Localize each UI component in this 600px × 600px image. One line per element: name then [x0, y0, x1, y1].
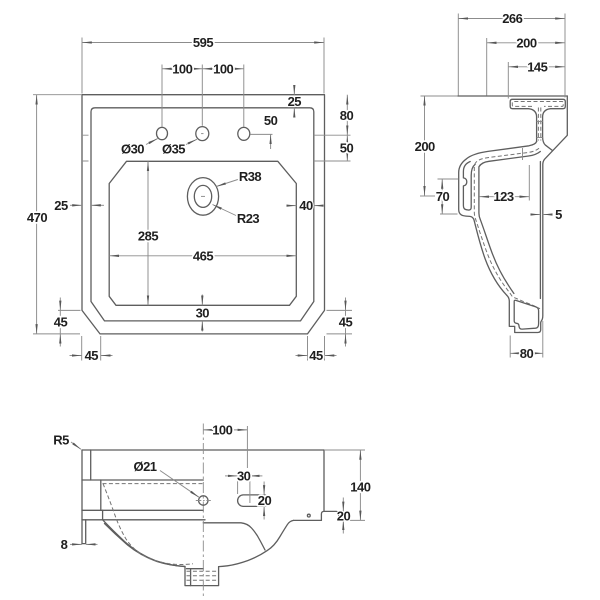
waste circle D21 — [199, 496, 208, 505]
dimension 30 front — [238, 479, 250, 503]
dimension 5 — [531, 214, 541, 216]
dimension 40 right — [287, 205, 297, 207]
overflow pill slot — [238, 495, 270, 507]
bowl bottom section inner — [514, 300, 538, 329]
svg-text:Ø35: Ø35 — [162, 141, 185, 156]
dimension 595 — [82, 38, 324, 94]
left edge — [81, 450, 83, 544]
web joint ticks — [537, 122, 543, 138]
basin outer outline (plan) — [82, 95, 325, 334]
overflow tick on band — [522, 148, 524, 160]
band web tick — [102, 510, 104, 520]
top edge — [82, 449, 324, 451]
dimension 145 — [507, 62, 509, 99]
dimension 200 top — [486, 38, 488, 96]
svg-text:R23: R23 — [237, 211, 260, 226]
dimension 25 left — [70, 204, 82, 206]
svg-text:80: 80 — [340, 108, 354, 123]
dimension 50 tap hole — [251, 133, 273, 135]
dimension 200 left — [420, 195, 435, 197]
dimension 20 right — [342, 498, 344, 512]
bowl outer curve left — [103, 520, 185, 567]
svg-text:470: 470 — [27, 210, 47, 225]
svg-text:595: 595 — [193, 35, 213, 50]
svg-text:45: 45 — [309, 348, 323, 363]
dimension 45 bottom right — [308, 336, 325, 361]
svg-text:50: 50 — [264, 113, 278, 128]
dimension 100 left — [162, 65, 244, 127]
dimension 25 top right — [293, 86, 295, 95]
svg-text:Ø21: Ø21 — [133, 459, 156, 474]
svg-text:50: 50 — [340, 141, 354, 156]
dimension 8 — [70, 543, 82, 545]
bowl outline (plan) — [109, 161, 296, 305]
deck hidden dashed — [103, 483, 204, 485]
svg-text:200: 200 — [516, 35, 536, 50]
dimension 45 right vertical — [327, 310, 353, 334]
rim T-flange outer — [510, 99, 565, 150]
bowl inner curve left — [105, 524, 186, 567]
svg-text:45: 45 — [85, 348, 99, 363]
left fixing slot ticks — [82, 135, 89, 161]
deck band hidden dashed — [474, 148, 540, 309]
svg-text:30: 30 — [237, 468, 251, 483]
centre outline to bulge — [203, 523, 265, 550]
svg-text:45: 45 — [339, 315, 353, 330]
rim T-flange inner dashed — [512, 102, 563, 107]
wall bracket tab — [321, 511, 338, 520]
svg-text:Ø30: Ø30 — [121, 141, 144, 156]
deck band outer top — [459, 142, 537, 296]
svg-text:30: 30 — [196, 305, 210, 320]
left end wall line — [90, 450, 92, 480]
bowl hidden dashed left — [103, 484, 193, 565]
basin rim middle outline (plan) — [91, 108, 314, 321]
back inner 5mm line — [539, 162, 541, 299]
centre line — [202, 424, 204, 598]
svg-text:20: 20 — [258, 493, 272, 508]
svg-text:8: 8 — [61, 537, 68, 552]
dimension 140 — [324, 449, 365, 451]
svg-text:25: 25 — [54, 198, 68, 213]
tap hole right — [238, 127, 250, 140]
dimension 465 — [109, 255, 296, 257]
svg-text:266: 266 — [502, 11, 522, 26]
dimension 80 bottom — [510, 321, 543, 358]
bottom long line — [339, 519, 365, 521]
svg-text:R5: R5 — [53, 432, 69, 447]
dimension 20 pill — [263, 482, 265, 495]
right edge — [323, 450, 325, 511]
dimension 70 — [438, 179, 459, 214]
dimension 100 right — [202, 68, 244, 70]
svg-text:285: 285 — [138, 229, 158, 244]
svg-text:100: 100 — [212, 422, 232, 437]
deck band inner bottom — [479, 152, 540, 294]
back wall chamfer and back line — [507, 96, 568, 333]
svg-text:40: 40 — [299, 198, 313, 213]
waste trap dashed threads — [187, 571, 218, 580]
dimension 80 right — [346, 95, 348, 136]
tap hole left — [157, 127, 168, 139]
svg-text:145: 145 — [527, 59, 547, 74]
svg-text:140: 140 — [350, 480, 370, 495]
waste hole outer R38 — [187, 178, 218, 216]
dimension 50 right — [346, 135, 348, 161]
right shell curve — [219, 520, 294, 566]
deck bottom line — [82, 479, 203, 481]
svg-text:R38: R38 — [239, 169, 262, 184]
waste hole inner R23 — [194, 185, 211, 207]
dimension 100 front — [246, 426, 248, 468]
right plateau — [294, 519, 322, 521]
front apron middle lines — [463, 162, 475, 211]
dimension 470 — [33, 95, 82, 334]
dimension 30 bottom — [201, 295, 203, 306]
svg-text:20: 20 — [337, 509, 351, 524]
front band upper line — [82, 509, 203, 511]
svg-text:123: 123 — [493, 189, 513, 204]
dimension 266 — [458, 14, 565, 98]
dimension 285 — [147, 161, 149, 305]
waste trap outline — [185, 567, 219, 586]
svg-text:70: 70 — [436, 189, 450, 204]
left apron inner line 8mm — [82, 520, 86, 544]
dimension 45 bottom left — [82, 336, 101, 361]
dimension 123 — [528, 165, 530, 201]
top edge line — [421, 95, 459, 97]
svg-text:25: 25 — [288, 94, 302, 109]
left inner wall — [100, 480, 102, 510]
fixing hole dot — [307, 514, 310, 517]
svg-text:200: 200 — [415, 139, 435, 154]
waste trap section lines — [187, 569, 204, 586]
dimension 45 left vertical — [58, 309, 81, 311]
svg-text:100: 100 — [172, 61, 192, 76]
tap hole centre — [196, 127, 209, 141]
right fixing slot / extension lines — [314, 135, 351, 161]
svg-text:5: 5 — [555, 207, 562, 222]
svg-text:100: 100 — [213, 61, 233, 76]
svg-text:80: 80 — [520, 346, 534, 361]
front band lower line left — [82, 519, 205, 521]
svg-text:45: 45 — [54, 315, 68, 330]
svg-text:465: 465 — [193, 248, 213, 263]
